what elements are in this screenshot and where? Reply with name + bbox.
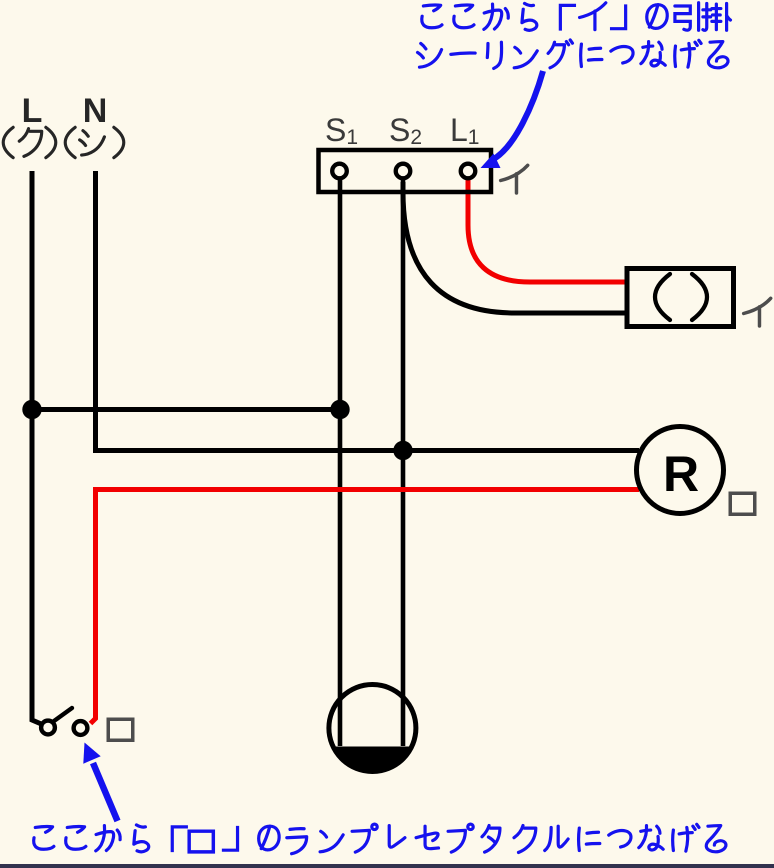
- svg-text:L: L: [22, 92, 43, 130]
- svg-text:R: R: [663, 446, 699, 502]
- svg-text:N: N: [83, 92, 108, 130]
